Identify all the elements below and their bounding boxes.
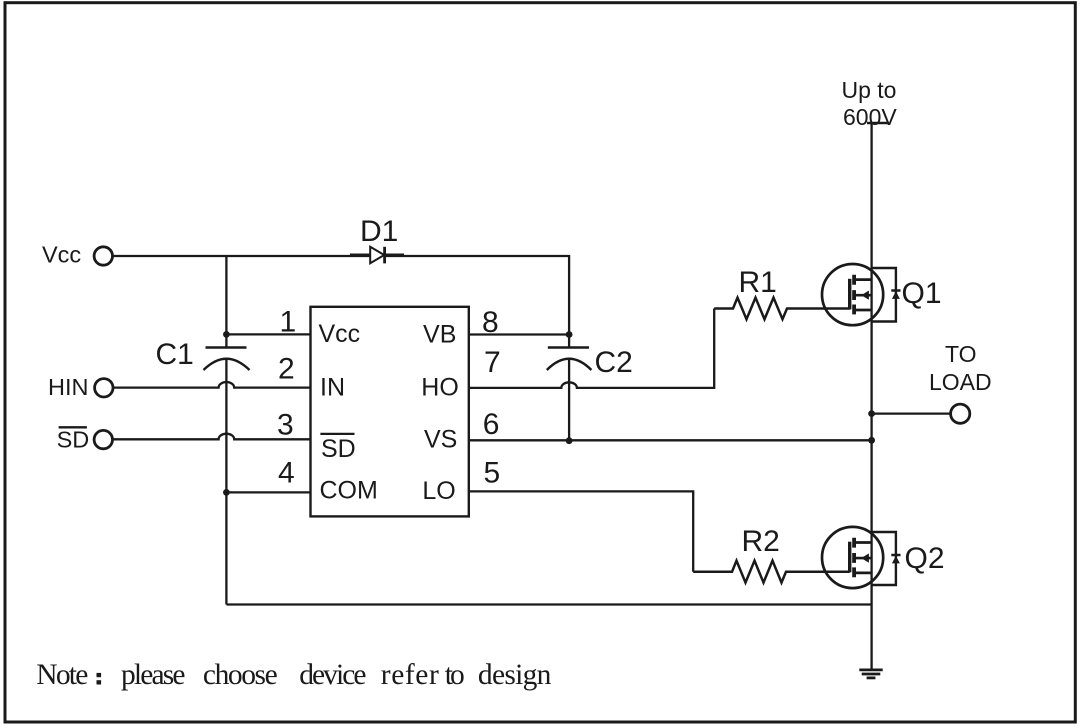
svg-text:Vcc: Vcc (42, 241, 81, 267)
label SD overline (terminal) (59, 426, 87, 428)
svg-text:SD: SD (57, 427, 90, 453)
note text (36, 659, 551, 691)
node TO LOAD junction (868, 410, 875, 417)
svg-text:HO: HO (421, 373, 459, 401)
note colon dots (97, 673, 102, 677)
svg-text:4: 4 (278, 457, 295, 490)
wire pin4 (226, 491, 310, 493)
capacitor C1 (204, 348, 250, 371)
wire D1 cathode to VB corner (385, 256, 569, 335)
svg-text:1: 1 (280, 306, 297, 339)
wire HV supply vertical (870, 123, 872, 670)
svg-text:Q1: Q1 (902, 277, 942, 310)
Q1 body diode (872, 268, 901, 322)
svg-text:D1: D1 (360, 215, 398, 248)
svg-text:600V: 600V (843, 104, 897, 130)
node pin4 junction (223, 489, 230, 496)
labels (42, 241, 459, 505)
transistor Q2 (822, 527, 883, 588)
ground (859, 670, 882, 678)
terminal SD (94, 430, 112, 448)
terminal HIN (95, 379, 113, 397)
svg-text:Q2: Q2 (905, 542, 945, 575)
svg-text:SD: SD (321, 435, 356, 463)
svg-text:R1: R1 (739, 266, 777, 299)
svg-text:to: to (445, 659, 465, 691)
svg-text:C1: C1 (156, 338, 194, 371)
node pin1 junction (223, 331, 230, 338)
wire pin6 VS (469, 439, 872, 441)
terminal TO LOAD (951, 404, 970, 423)
transistor Q1 (822, 264, 883, 325)
svg-text:3: 3 (277, 408, 294, 441)
wire to load terminal (872, 412, 951, 414)
svg-text:design: design (478, 659, 552, 691)
svg-text:C2: C2 (595, 346, 633, 379)
svg-text:R2: R2 (742, 525, 780, 558)
wire bottom rail (226, 603, 871, 605)
svg-text:Up to: Up to (842, 77, 897, 103)
label SD overline (pin) (320, 433, 354, 435)
svg-text:8: 8 (482, 306, 499, 339)
wire Vcc branch down to C1 (225, 256, 227, 347)
wire C2 vertical (568, 335, 570, 441)
svg-text:HIN: HIN (48, 374, 88, 400)
resistor R1 (714, 298, 850, 320)
IC U1 box (311, 307, 469, 517)
capacitor C2 (547, 348, 592, 371)
wire pin5 LO (469, 491, 693, 571)
svg-text:please: please (121, 659, 186, 691)
wire HIN to pin2 with hop (114, 382, 311, 388)
svg-text:Vcc: Vcc (319, 320, 361, 348)
svg-text:COM: COM (320, 476, 378, 504)
Q2 body diode (872, 532, 901, 585)
svg-text:choose: choose (203, 659, 278, 691)
resistor R2 (693, 561, 850, 583)
wire Vcc rail to D1 anode (113, 255, 371, 257)
node VS junction (868, 437, 875, 444)
supply top bar (867, 122, 889, 124)
wire pin1 (226, 333, 310, 335)
svg-text:2: 2 (278, 352, 295, 385)
node pin8 junction (566, 331, 573, 338)
wire pin8 (469, 333, 569, 335)
node C2-VS junction (566, 437, 573, 444)
svg-text:5: 5 (484, 457, 501, 490)
diode D1 (350, 247, 404, 264)
svg-text:LOAD: LOAD (929, 369, 992, 395)
svg-text:VB: VB (423, 321, 456, 349)
svg-text:VS: VS (424, 425, 457, 453)
wire SD to pin3 with hop (112, 434, 310, 440)
svg-text:6: 6 (483, 408, 500, 441)
svg-text:IN: IN (320, 373, 345, 401)
svg-text:LO: LO (422, 477, 455, 505)
svg-text:device: device (299, 659, 366, 691)
wire C1 down to bottom rail (225, 359, 227, 605)
svg-text:TO: TO (945, 341, 977, 367)
svg-text:Note: Note (36, 659, 88, 691)
svg-text:refer: refer (381, 659, 439, 691)
terminal Vcc (94, 247, 112, 265)
wire pin7 HO with hop (469, 309, 714, 388)
svg-text:7: 7 (484, 346, 501, 379)
